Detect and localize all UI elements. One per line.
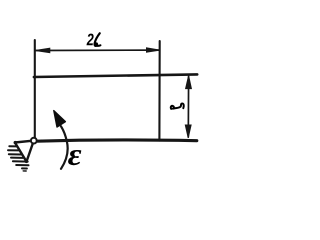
wire left edge / extension line	[34, 40, 36, 138]
label epsilon	[68, 150, 81, 165]
ground hatching	[8, 146, 29, 171]
wire bottom edge	[37, 140, 197, 141]
label 2l	[87, 33, 101, 46]
wire right vertical dimension line	[187, 77, 189, 138]
ground support triangle	[14, 141, 34, 163]
node right arrowhead of 2l dimension	[147, 48, 160, 52]
label l (rotated)	[171, 103, 184, 108]
wire rectangle top edge	[34, 74, 197, 77]
node pin joint circle	[31, 138, 37, 144]
node left arrowhead of 2l dimension	[35, 48, 50, 53]
wire epsilon arc	[61, 126, 68, 169]
node epsilon arrowhead	[54, 111, 66, 127]
node up arrowhead of l dimension	[186, 76, 192, 89]
wire right edge	[158, 41, 160, 141]
wire top dimension line	[35, 49, 159, 51]
node down arrowhead of l dimension	[185, 125, 191, 138]
